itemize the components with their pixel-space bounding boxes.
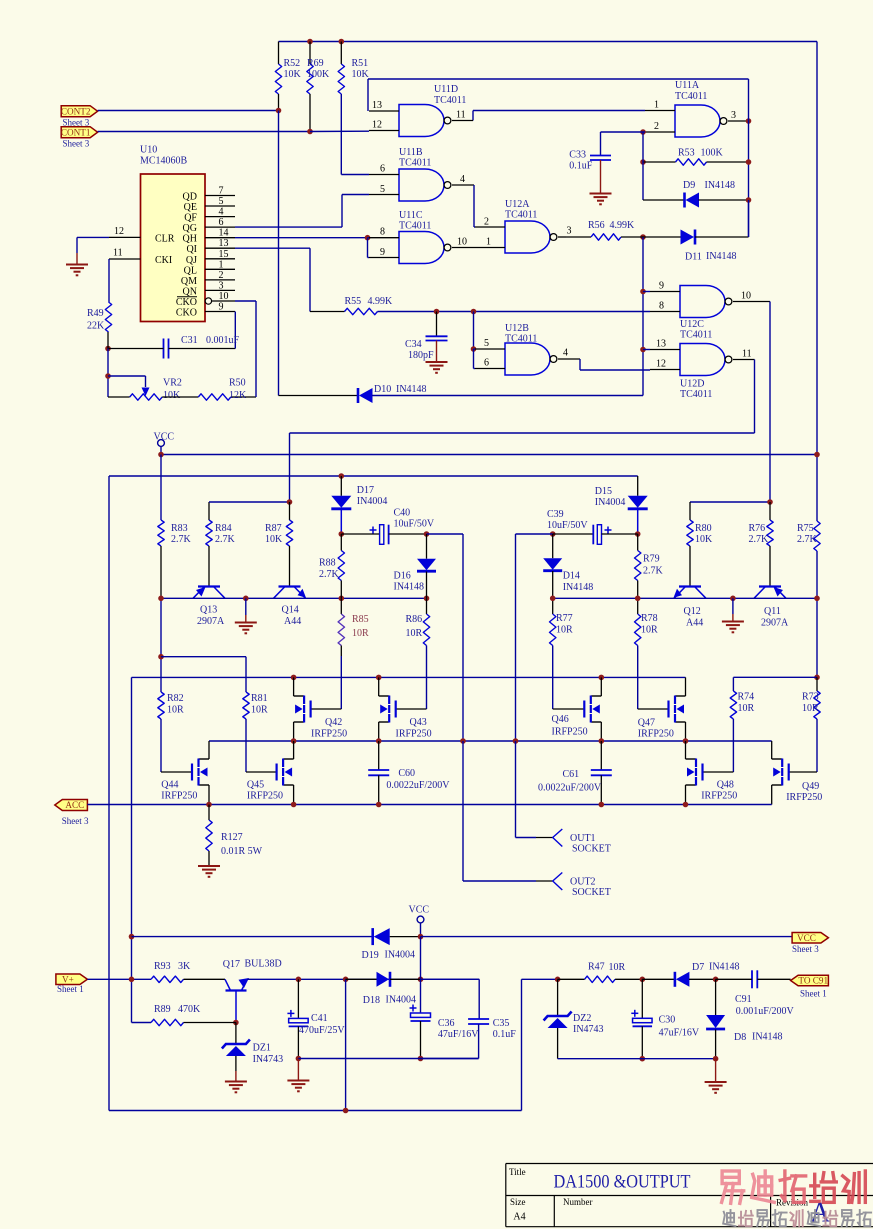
- svg-text:47uF/16V: 47uF/16V: [438, 1029, 479, 1040]
- svg-text:10R: 10R: [609, 962, 626, 973]
- wire R82/R83 column: [160, 598, 162, 692]
- ground between Q12 Q11: [732, 598, 734, 614]
- wire y=476 rail (D17 anode rail): [109, 475, 638, 477]
- capacitor C41 470uF/25V: [297, 979, 299, 1018]
- diode D7 IN4148: [642, 978, 675, 980]
- svg-text:4: 4: [563, 348, 568, 359]
- pin 6 (QG) of U10: [205, 226, 235, 228]
- svg-text:U12D: U12D: [680, 379, 704, 390]
- svg-text:R80: R80: [695, 523, 712, 534]
- op-gate U11A TC4011: [675, 105, 720, 137]
- wire R77 to Q46 gate: [553, 708, 585, 710]
- mosfet Q45 IRFP250: [293, 741, 295, 759]
- svg-text:R74: R74: [738, 692, 755, 703]
- svg-text:U12A: U12A: [505, 199, 530, 210]
- diode D10 IN4148: [279, 395, 359, 397]
- svg-text:C36: C36: [438, 1018, 455, 1029]
- svg-text:0.1uF: 0.1uF: [493, 1029, 517, 1040]
- svg-text:U11B: U11B: [399, 147, 423, 158]
- wire U12D pin13 stub: [643, 349, 650, 351]
- wire gate-drive bus1 y=677.4: [132, 676, 686, 678]
- transistor Q11 2907A: [759, 585, 781, 587]
- svg-text:QI: QI: [186, 244, 197, 255]
- wire OUT1 from C39/D14 column: [515, 741, 517, 838]
- wire left border column x=109: [108, 476, 110, 1111]
- svg-text:2.7K: 2.7K: [319, 569, 340, 580]
- mosfet Q47 IRFP250: [685, 677, 687, 696]
- wire U12C out down x=770: [769, 302, 771, 502]
- transistor Q13 2907A: [198, 585, 220, 587]
- ground C41: [297, 1059, 299, 1081]
- ground R127: [198, 865, 220, 867]
- svg-text:MC14060B: MC14060B: [140, 156, 188, 167]
- svg-text:C41: C41: [311, 1013, 328, 1024]
- svg-text:10R: 10R: [641, 625, 658, 636]
- svg-text:14: 14: [219, 228, 229, 239]
- svg-text:IRFP250: IRFP250: [552, 727, 588, 738]
- capacitor C39 10uF/50V polarized: [550, 531, 556, 537]
- wire V+ row y=979.3: [87, 978, 151, 980]
- svg-text:15: 15: [219, 249, 229, 260]
- wire x=643 column (R56 node): [642, 237, 644, 396]
- svg-text:10K: 10K: [265, 534, 283, 545]
- resistor R74: [730, 691, 736, 719]
- svg-text:QE: QE: [184, 202, 197, 213]
- svg-text:OUT2: OUT2: [570, 877, 596, 888]
- svg-text:10uF/50V: 10uF/50V: [394, 519, 435, 530]
- svg-text:Q12: Q12: [684, 606, 701, 617]
- diode D18 IN4004: [346, 978, 377, 980]
- svg-text:U11D: U11D: [434, 84, 458, 95]
- svg-text:D18: D18: [363, 995, 380, 1006]
- svg-text:9: 9: [219, 302, 224, 313]
- svg-text:10K: 10K: [695, 534, 713, 545]
- svg-text:C33: C33: [569, 150, 586, 161]
- resistor R78: [637, 598, 639, 614]
- svg-text:Q49: Q49: [802, 781, 819, 792]
- wire R74 to Q48 gate: [703, 771, 734, 773]
- op-gate U12C TC4011: [680, 286, 725, 318]
- svg-text:IRFP250: IRFP250: [701, 791, 737, 802]
- wire OUT2 from C40/D16 column: [462, 741, 464, 881]
- wire cap ground row left: [298, 1058, 478, 1060]
- svg-text:4: 4: [219, 207, 224, 218]
- resistor R93 3K: [151, 976, 184, 982]
- svg-text:4: 4: [460, 174, 465, 185]
- wire U12D out loop to R84/R87 node: [754, 360, 756, 434]
- svg-text:10: 10: [219, 291, 229, 302]
- svg-text:R77: R77: [556, 613, 573, 624]
- wire x=131 column (bus1 to V+): [131, 677, 133, 1022]
- resistor R56: [566, 236, 591, 238]
- resistor R80: [689, 502, 691, 520]
- svg-text:1: 1: [219, 259, 224, 270]
- wire emitter rail right y=598.3: [553, 597, 817, 599]
- svg-text:R47: R47: [588, 962, 605, 973]
- svg-text:OUT1: OUT1: [570, 833, 596, 844]
- resistor R52: [278, 42, 280, 65]
- svg-text:SOCKET: SOCKET: [572, 844, 611, 855]
- svg-text:CONT2: CONT2: [61, 106, 91, 116]
- wire R55 bus to U12C pin8: [437, 311, 651, 313]
- svg-text:R127: R127: [221, 832, 243, 843]
- wire U12B out to U12D pin12: [579, 359, 581, 370]
- svg-text:D9: D9: [683, 180, 695, 191]
- pin 2 (QM) of U10: [205, 279, 235, 281]
- svg-text:2.7K: 2.7K: [749, 534, 770, 545]
- svg-text:Q11: Q11: [764, 606, 781, 617]
- capacitor C36 47uF/16V: [411, 1013, 431, 1017]
- wire R53/D9 left column x=643: [642, 132, 644, 200]
- svg-text:D8: D8: [734, 1032, 746, 1043]
- svg-text:10K: 10K: [352, 69, 370, 80]
- chip U10 MC14060B: [141, 174, 206, 322]
- svg-text:9: 9: [659, 281, 664, 292]
- resistor R81: [243, 692, 249, 719]
- svg-text:R86: R86: [406, 614, 423, 625]
- svg-text:D19: D19: [362, 950, 379, 961]
- op-gate U11B TC4011: [399, 169, 444, 201]
- svg-text:5: 5: [219, 196, 224, 207]
- resistor R73: [816, 677, 818, 691]
- wire DZ2 row: [522, 978, 558, 980]
- svg-text:0.0022uF/200V: 0.0022uF/200V: [386, 780, 450, 791]
- op-gate U12A TC4011: [505, 221, 550, 253]
- svg-text:47uF/16V: 47uF/16V: [659, 1028, 700, 1039]
- svg-text:C34: C34: [405, 339, 422, 350]
- wire C35 branch: [421, 978, 480, 980]
- svg-text:6: 6: [219, 217, 224, 228]
- wire bottom rail y=1110.5: [109, 1110, 522, 1112]
- svg-text:3: 3: [219, 280, 224, 291]
- svg-text:R53: R53: [678, 148, 695, 159]
- svg-text:12: 12: [372, 120, 382, 131]
- pin 9 (CKO) of U10: [205, 311, 235, 313]
- transistor Q17 BUL38D: [226, 989, 247, 991]
- svg-text:470K: 470K: [178, 1004, 201, 1015]
- port ACC: [55, 800, 88, 811]
- svg-text:C30: C30: [659, 1015, 676, 1026]
- svg-text:Size: Size: [510, 1197, 526, 1207]
- svg-text:IN4148: IN4148: [394, 582, 425, 593]
- svg-text:CLR: CLR: [155, 234, 175, 245]
- svg-text:IN4004: IN4004: [385, 950, 416, 961]
- svg-text:4.99K: 4.99K: [368, 296, 394, 307]
- svg-text:IN4004: IN4004: [357, 496, 388, 507]
- svg-text:0.0022uF/200V: 0.0022uF/200V: [538, 783, 602, 794]
- capacitor C30 47uF/16V: [641, 979, 643, 1018]
- resistor R86: [426, 598, 428, 614]
- svg-text:C31: C31: [181, 335, 198, 346]
- resistor R88: [340, 534, 342, 551]
- svg-text:2.7K: 2.7K: [171, 534, 192, 545]
- mosfet Q43 IRFP250: [378, 677, 380, 696]
- svg-text:QF: QF: [184, 213, 197, 224]
- wire riser x=521.5: [521, 979, 523, 1110]
- node C40 left: [339, 531, 345, 537]
- svg-text:C40: C40: [394, 508, 411, 519]
- wire R50 to CKO pin10: [255, 301, 257, 397]
- svg-text:1: 1: [654, 100, 659, 111]
- svg-text:U11A: U11A: [675, 80, 700, 91]
- wire U11A pin2 net: [640, 129, 646, 135]
- svg-text:TO C91: TO C91: [798, 976, 828, 986]
- svg-text:Q42: Q42: [325, 717, 342, 728]
- svg-text:D11: D11: [685, 252, 702, 263]
- svg-text:Sheet 1: Sheet 1: [800, 989, 827, 999]
- svg-text:Q47: Q47: [638, 718, 655, 729]
- svg-text:100K: 100K: [307, 69, 330, 80]
- svg-text:10R: 10R: [251, 705, 268, 716]
- wire Q17 emitter row: [247, 978, 479, 980]
- pin 4 (QF) of U10: [205, 216, 235, 218]
- svg-text:Sheet 3: Sheet 3: [792, 944, 819, 954]
- diode D16 IN4148: [426, 534, 428, 559]
- wire CONT1 to U11D pin 12: [98, 131, 310, 133]
- svg-text:Q44: Q44: [161, 780, 178, 791]
- svg-text:TC4011: TC4011: [399, 158, 431, 169]
- svg-text:TC4011: TC4011: [675, 91, 707, 102]
- svg-text:R87: R87: [265, 523, 282, 534]
- resistor R82: [158, 692, 164, 719]
- op-gate U12D TC4011: [680, 344, 725, 376]
- svg-text:R56: R56: [588, 220, 605, 231]
- svg-text:R73: R73: [802, 692, 819, 703]
- wire R85 to Q42 gate: [311, 708, 342, 710]
- svg-text:R85: R85: [352, 614, 369, 625]
- title block frame: [506, 1163, 873, 1165]
- svg-text:IN4004: IN4004: [386, 995, 417, 1006]
- svg-text:IN4148: IN4148: [709, 962, 740, 973]
- svg-text:10K: 10K: [163, 390, 181, 401]
- watermark logo line 1: [722, 1171, 744, 1203]
- resistor R69: [307, 39, 313, 45]
- svg-text:TC4011: TC4011: [505, 334, 537, 345]
- svg-text:VR2: VR2: [163, 378, 182, 389]
- ground at CLR pin: [77, 236, 109, 238]
- svg-text:VCC: VCC: [409, 905, 430, 916]
- port OUT2 SOCKET: [553, 873, 563, 891]
- svg-text:Q13: Q13: [200, 605, 217, 616]
- svg-text:10: 10: [741, 291, 751, 302]
- svg-text:12: 12: [656, 359, 666, 370]
- zener DZ2 IN4743: [557, 979, 559, 1016]
- pin 10 (CKO) of U10: [205, 298, 211, 304]
- svg-text:DA1500 &OUTPUT: DA1500 &OUTPUT: [554, 1172, 691, 1193]
- svg-text:QG: QG: [183, 223, 197, 234]
- wire R78 to Q47 gate: [638, 708, 669, 710]
- svg-text:Number: Number: [563, 1197, 593, 1207]
- diode D17 IN4004: [339, 473, 345, 479]
- svg-text:Q45: Q45: [247, 780, 264, 791]
- wire D19 row y=936.6: [129, 934, 135, 940]
- wire U12C pin9 stub: [643, 291, 650, 293]
- op-gate U11C TC4011: [399, 232, 444, 264]
- resistor R89 470K: [151, 1019, 184, 1025]
- port VCC Sheet 3: [792, 933, 828, 944]
- pin 7 (QD) of U10: [205, 195, 235, 197]
- svg-text:R78: R78: [641, 613, 658, 624]
- svg-text:2: 2: [484, 217, 489, 228]
- svg-text:10R: 10R: [556, 625, 573, 636]
- watermark logo line 2: [723, 1210, 735, 1226]
- svg-text:QM: QM: [181, 276, 197, 287]
- mosfet Q46 IRFP250: [600, 677, 602, 696]
- svg-text:A44: A44: [686, 618, 703, 629]
- svg-text:D16: D16: [394, 571, 411, 582]
- svg-text:8: 8: [659, 301, 664, 312]
- svg-text:D15: D15: [595, 486, 612, 497]
- pin 1 (QL) of U10: [205, 268, 235, 270]
- svg-text:D7: D7: [692, 962, 704, 973]
- svg-text:SOCKET: SOCKET: [572, 887, 611, 898]
- wire U11A pin1 from U11D out: [472, 111, 474, 121]
- svg-text:CKO: CKO: [176, 297, 197, 308]
- op-gate U12B TC4011: [505, 343, 550, 375]
- node U11A output junction: [746, 118, 752, 124]
- svg-text:R82: R82: [167, 693, 184, 704]
- capacitor C31: [105, 346, 111, 352]
- svg-text:IN4148: IN4148: [563, 582, 594, 593]
- svg-text:CKO: CKO: [176, 308, 197, 319]
- svg-text:IRFP250: IRFP250: [161, 791, 197, 802]
- svg-text:R93: R93: [154, 961, 171, 972]
- svg-text:D14: D14: [563, 571, 580, 582]
- svg-text:IRFP250: IRFP250: [396, 729, 432, 740]
- wire R52 column down to D10 row: [278, 111, 280, 396]
- svg-text:U10: U10: [140, 145, 157, 156]
- mosfet Q49 IRFP250: [771, 741, 773, 759]
- resistor R51: [339, 39, 345, 45]
- wire C39 to coupling column x=515.5: [516, 533, 553, 535]
- svg-text:C35: C35: [493, 1018, 510, 1029]
- port OUT1 SOCKET: [553, 829, 563, 847]
- svg-text:U12B: U12B: [505, 323, 529, 334]
- wire feedback column x=748.5: [748, 79, 750, 237]
- resistor R47 10R: [558, 978, 585, 980]
- svg-text:VCC: VCC: [797, 933, 816, 943]
- svg-text:2: 2: [654, 121, 659, 132]
- svg-text:10R: 10R: [352, 628, 369, 639]
- wire mid bus2 y=741: [209, 740, 772, 742]
- svg-text:CONT1: CONT1: [61, 127, 91, 137]
- svg-text:10: 10: [457, 237, 467, 248]
- svg-text:180pF: 180pF: [408, 350, 434, 361]
- svg-text:QN: QN: [183, 286, 197, 297]
- svg-text:0.001uF: 0.001uF: [206, 335, 240, 346]
- svg-text:10K: 10K: [284, 69, 302, 80]
- svg-text:CKI: CKI: [155, 255, 172, 266]
- svg-text:QH: QH: [183, 234, 197, 245]
- wire emitter rail left y=598.3: [161, 597, 427, 599]
- svg-text:2.7K: 2.7K: [643, 566, 664, 577]
- svg-text:Sheet 3: Sheet 3: [63, 139, 90, 149]
- resistor R85 (purple/watermarked): [340, 598, 342, 614]
- wire R84 top to R87 node: [209, 501, 290, 503]
- svg-text:IRFP250: IRFP250: [786, 792, 822, 803]
- svg-text:13: 13: [372, 100, 382, 111]
- ground DZ1: [225, 1081, 247, 1083]
- svg-text:10R: 10R: [406, 628, 423, 639]
- svg-text:TC4011: TC4011: [505, 210, 537, 221]
- wire right vertical x=817 (VCC column): [816, 42, 818, 455]
- svg-text:10R: 10R: [167, 705, 184, 716]
- svg-text:0.001uF/200V: 0.001uF/200V: [736, 1006, 795, 1017]
- svg-text:QD: QD: [183, 192, 197, 203]
- svg-text:7: 7: [219, 186, 224, 197]
- wire QH pin14 to U11C pins 8-9: [235, 237, 368, 239]
- svg-text:IRFP250: IRFP250: [638, 729, 674, 740]
- wire R89 row: [233, 1020, 239, 1026]
- node VCC rail right: [814, 452, 820, 458]
- svg-text:2907A: 2907A: [761, 618, 789, 629]
- svg-text:D17: D17: [357, 485, 374, 496]
- svg-text:V+: V+: [62, 975, 74, 985]
- pin 3 (QN) of U10: [205, 289, 235, 291]
- svg-text:R83: R83: [171, 523, 188, 534]
- svg-text:13: 13: [219, 238, 229, 249]
- svg-text:Sheet 1: Sheet 1: [57, 984, 84, 994]
- svg-text:R51: R51: [352, 58, 369, 69]
- wire R74/R73 feed: [814, 675, 820, 681]
- svg-text:QL: QL: [184, 265, 197, 276]
- svg-text:BUL38D: BUL38D: [245, 959, 282, 970]
- ground D8 node: [715, 1059, 717, 1082]
- svg-text:C60: C60: [398, 768, 415, 779]
- svg-text:IN4148: IN4148: [752, 1032, 783, 1043]
- svg-text:22K: 22K: [87, 321, 105, 332]
- zener DZ1 IN4743: [235, 1023, 237, 1045]
- pin 13 (QI) of U10: [205, 247, 235, 249]
- svg-text:13: 13: [656, 339, 666, 350]
- svg-text:IN4148: IN4148: [706, 251, 737, 262]
- diode D11 IN4148: [640, 234, 646, 240]
- svg-text:C91: C91: [735, 994, 752, 1005]
- svg-text:1: 1: [486, 237, 491, 248]
- svg-text:R89: R89: [154, 1004, 171, 1015]
- resistor R76: [769, 502, 771, 520]
- svg-text:3: 3: [567, 226, 572, 237]
- svg-text:11: 11: [113, 248, 123, 259]
- port CONT1: [61, 127, 97, 138]
- resistor R53: [640, 159, 646, 165]
- wire U11B out to U12A pin2: [473, 185, 475, 227]
- svg-text:IN4743: IN4743: [573, 1024, 604, 1035]
- svg-text:Q43: Q43: [410, 717, 427, 728]
- wire R82 to Q44 gate: [161, 771, 192, 773]
- svg-text:2907A: 2907A: [197, 616, 225, 627]
- svg-text:12: 12: [114, 226, 124, 237]
- svg-text:11: 11: [742, 349, 752, 360]
- port TO C91 Sheet 1: [791, 975, 829, 986]
- svg-text:U12C: U12C: [680, 319, 704, 330]
- ground C33: [590, 193, 612, 195]
- mosfet Q44 IRFP250: [208, 741, 210, 759]
- pin 5 (QE) of U10: [205, 205, 235, 207]
- svg-text:R81: R81: [251, 693, 268, 704]
- svg-text:2.7K: 2.7K: [797, 534, 818, 545]
- svg-text:R50: R50: [229, 378, 246, 389]
- wire QG pin6 to U11B pin5: [235, 226, 342, 228]
- wire base drive R80/R76 tops: [690, 501, 770, 503]
- svg-text:100K: 100K: [701, 148, 724, 159]
- svg-text:470uF/25V: 470uF/25V: [299, 1025, 345, 1036]
- resistor R127 0.01R 5W: [208, 805, 210, 821]
- svg-text:ACC: ACC: [65, 800, 84, 810]
- svg-text:Q46: Q46: [552, 714, 569, 725]
- svg-text:R75: R75: [797, 523, 814, 534]
- svg-text:2: 2: [219, 270, 224, 281]
